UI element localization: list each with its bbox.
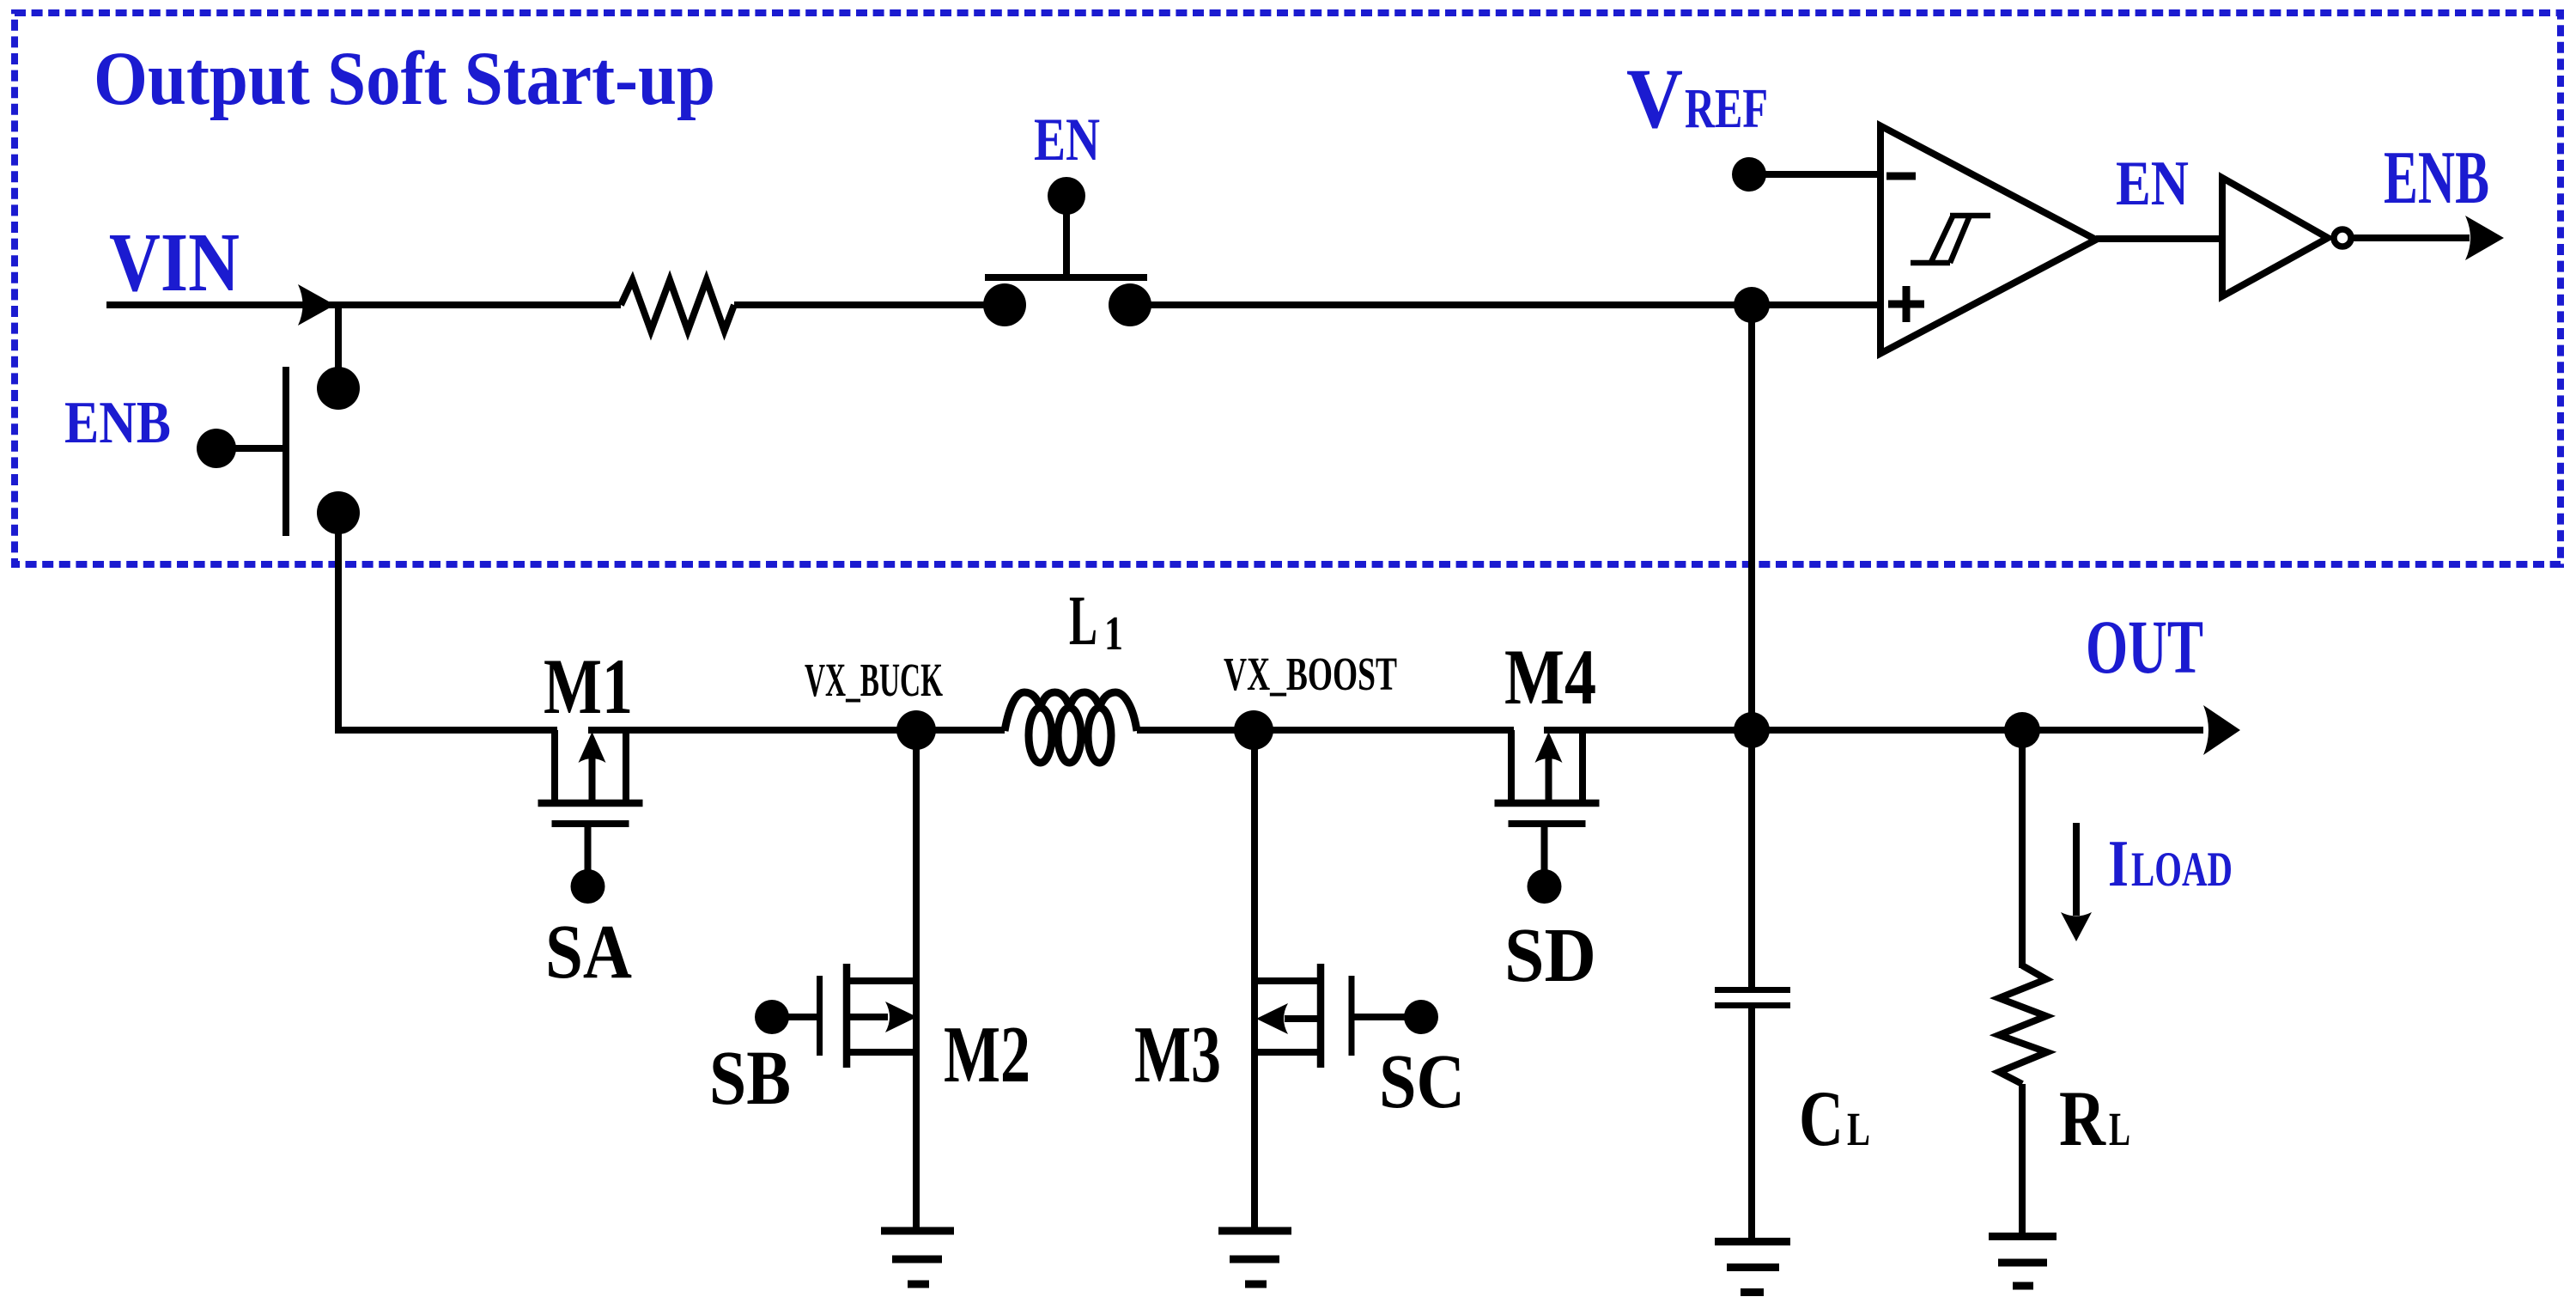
ENB gate dot: [197, 429, 236, 468]
svg-text:SD: SD: [1504, 913, 1596, 998]
capacitor CL: [1715, 987, 1790, 993]
wire VIN node down: [335, 305, 342, 388]
ground M2: [881, 1227, 954, 1235]
transistor M2: [847, 977, 916, 984]
inductor L1: [1005, 692, 1137, 763]
wire VIN input: [106, 301, 621, 308]
svg-text:ENB: ENB: [64, 390, 171, 456]
inverter: [2222, 178, 2328, 296]
gate dot SB: [755, 1000, 789, 1034]
wire ENB output: [2354, 234, 2470, 241]
gate dot SD: [1528, 869, 1562, 904]
svg-text:SB: SB: [709, 1036, 791, 1121]
svg-text:VX_BOOST: VX_BOOST: [1224, 648, 1397, 700]
svg-text:EN: EN: [2116, 149, 2189, 219]
OUT arrowhead: [2203, 705, 2240, 755]
svg-text:L: L: [2109, 1103, 2130, 1155]
svg-text:REF: REF: [1685, 77, 1768, 140]
wire ENB switch down to rail: [338, 513, 557, 730]
wire M4 to OUT: [1544, 727, 2203, 734]
ENB output arrowhead: [2465, 216, 2504, 260]
ground CL: [1715, 1238, 1790, 1245]
plus input symbol: [1888, 301, 1924, 308]
soft start-up dashed box: [15, 13, 2561, 564]
hysteresis symbol: [1911, 260, 1950, 266]
node VX_BUCK dot: [896, 710, 936, 750]
minus input symbol: [1886, 173, 1916, 180]
svg-text:ENB: ENB: [2384, 137, 2489, 220]
svg-text:M2: M2: [944, 1010, 1030, 1099]
EN gate dot: [1048, 177, 1085, 215]
EN switch left contact: [983, 283, 1026, 326]
resistor RL: [1999, 965, 2047, 1084]
svg-text:I: I: [2108, 826, 2129, 900]
VREF dot: [1732, 157, 1766, 192]
svg-text:M3: M3: [1134, 1010, 1221, 1099]
comparator U1: [1880, 126, 2096, 354]
node VX_BOOST dot: [1234, 710, 1273, 750]
svg-text:EN: EN: [1034, 107, 1100, 174]
svg-text:R: R: [2059, 1075, 2106, 1162]
transistor M4: [1508, 730, 1515, 800]
ENB switch gate bar: [283, 367, 289, 536]
svg-text:L: L: [1847, 1103, 1870, 1155]
wire resistor to EN switch: [734, 301, 1005, 308]
svg-text:LOAD: LOAD: [2131, 843, 2233, 897]
transistor M1: [551, 730, 558, 800]
svg-text:VIN: VIN: [109, 216, 240, 309]
svg-text:Output Soft Start-up: Output Soft Start-up: [94, 37, 715, 121]
gate dot SC: [1404, 1000, 1438, 1034]
svg-text:C: C: [1799, 1075, 1844, 1162]
wire CL bottom: [1748, 1008, 1755, 1238]
node CL junction dot: [1734, 712, 1770, 748]
ground M3: [1218, 1227, 1291, 1235]
wire VREF to minus input: [1749, 171, 1880, 178]
wire rail M1 to inductor: [588, 727, 1005, 734]
wire VX_BUCK down to ground: [913, 730, 920, 1231]
svg-text:V: V: [1626, 51, 1683, 146]
node junction comparator plus input: [1734, 287, 1770, 323]
wire RL top: [2019, 730, 2026, 968]
wire RL bottom: [2019, 1084, 2026, 1237]
wire EN switch to comparator: [1130, 301, 1880, 308]
svg-text:OUT: OUT: [2086, 606, 2203, 690]
svg-text:1: 1: [1104, 607, 1123, 661]
wire inductor to VX_BOOST: [1137, 727, 1514, 734]
inverter bubble: [2334, 229, 2351, 247]
EN gate stem: [1063, 206, 1070, 277]
wire junction down to output rail: [1748, 305, 1755, 730]
node OUT junction dot: [2004, 712, 2040, 748]
transistor M3: [1255, 977, 1321, 984]
wire CL branch top: [1748, 730, 1755, 987]
ground RL: [1989, 1233, 2057, 1240]
gate dot SA: [571, 869, 605, 904]
resistor (soft-start): [621, 280, 734, 331]
ENB gate lead: [216, 445, 286, 452]
svg-text:SC: SC: [1379, 1039, 1465, 1124]
EN switch gate bar: [985, 274, 1147, 281]
ENB switch top contact: [317, 367, 360, 410]
EN switch right contact: [1109, 283, 1151, 326]
wire comparator output EN: [2096, 235, 2222, 242]
svg-text:M4: M4: [1504, 633, 1596, 721]
svg-text:VX_BUCK: VX_BUCK: [805, 654, 943, 706]
svg-text:SA: SA: [545, 910, 632, 995]
svg-text:M1: M1: [544, 642, 633, 730]
VIN arrowhead: [298, 284, 335, 326]
ENB switch bottom contact: [317, 491, 360, 534]
ILOAD arrow: [2073, 823, 2080, 916]
svg-text:L: L: [1069, 581, 1097, 660]
wire VX_BOOST down to ground: [1251, 730, 1258, 1231]
